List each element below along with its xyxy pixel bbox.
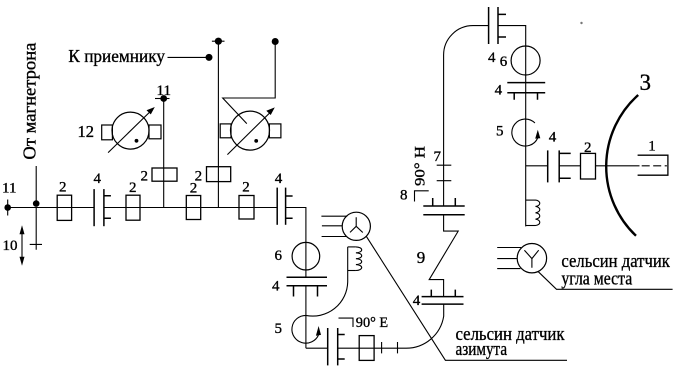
wire vertical below rotator 5 #1	[525, 146, 527, 226]
wire top-left curve of right chain	[444, 26, 489, 206]
rotator 5 #2 arc with arrow	[292, 315, 321, 343]
rotary joint 4 #8	[548, 150, 571, 182]
svg-text:4: 4	[413, 293, 421, 309]
flexible section 9 zigzag	[429, 215, 458, 297]
rotary joint 4 #6 top right	[489, 7, 506, 44]
junction dot магнетрон	[33, 200, 40, 207]
rotary joint 4 #4 on 90E line	[328, 328, 345, 365]
svg-text:4: 4	[495, 83, 503, 99]
corner bracket 90E	[339, 318, 354, 327]
svg-text:азимута: азимута	[456, 339, 508, 360]
ticks 7 on vertical	[437, 165, 452, 181]
arrow 10 double headed	[20, 225, 25, 266]
box 2 on riser 2	[207, 167, 231, 182]
svg-text:К приемнику: К приемнику	[68, 46, 165, 66]
svg-text:2: 2	[141, 169, 149, 185]
svg-text:9: 9	[417, 248, 426, 267]
wire coil1 down curve to rotator 5	[306, 271, 348, 317]
svg-text:11: 11	[2, 181, 16, 197]
svg-text:2: 2	[242, 179, 250, 195]
leader elevation selsyn	[538, 271, 673, 289]
svg-text:4: 4	[272, 279, 280, 295]
svg-text:2: 2	[59, 180, 67, 196]
riser 1 to node 11	[163, 99, 165, 208]
wire К приемнику with dot	[168, 56, 210, 58]
svg-text:4: 4	[488, 50, 496, 66]
wire main horizontal line left part	[8, 207, 94, 209]
wire От магнетрона riser	[35, 166, 37, 203]
wire 90E after box ticks	[382, 342, 398, 353]
coil 1 azimuth selsyn drive	[348, 247, 362, 271]
wire to box 2 right	[559, 165, 580, 167]
riser 2	[217, 41, 219, 207]
svg-text:5: 5	[496, 123, 504, 139]
svg-text:6: 6	[500, 54, 508, 70]
svg-text:3: 3	[640, 70, 652, 95]
elevation selsyn	[497, 244, 546, 273]
box on 90E line	[359, 336, 374, 361]
wire top right to circle	[498, 26, 526, 147]
svg-text:7: 7	[434, 149, 442, 165]
rotating section 6 #1 circle	[292, 242, 320, 270]
wire stub below main line with end tick	[30, 208, 42, 250]
leader azimuth selsyn	[366, 236, 567, 360]
box 2 #3 on main line	[186, 196, 200, 220]
svg-text:4: 4	[549, 130, 557, 146]
coil 2 elevation drive	[526, 200, 540, 225]
rotary joint 4 #9 horizontal	[507, 83, 545, 100]
svg-text:10: 10	[3, 238, 18, 254]
svg-text:90° E: 90° E	[356, 315, 388, 331]
node top of riser 2	[212, 38, 225, 45]
svg-text:2: 2	[195, 168, 203, 184]
rotary joint 4 #2	[277, 188, 292, 225]
rotator 5 #1 arc with arrow	[512, 119, 540, 146]
svg-text:4: 4	[94, 171, 102, 187]
box 2 #4 on main line	[239, 196, 254, 220]
box 2 on riser 1	[152, 168, 177, 181]
node 11 (left end of main waveguide line)	[4, 200, 11, 216]
node 11 top of riser 1	[155, 95, 170, 102]
svg-text:4: 4	[275, 171, 283, 187]
rotary joint 4 #1	[94, 189, 111, 226]
rotary joint 4 #5 horizontal	[422, 290, 464, 305]
riser 3 with Z-link to attenuator	[223, 38, 279, 124]
wire vertical below element 4 down through rotator 5	[305, 286, 307, 348]
svg-text:2: 2	[584, 140, 592, 156]
corner bracket 8	[415, 191, 429, 202]
feed horn 1	[638, 155, 668, 175]
svg-text:11: 11	[157, 83, 171, 99]
rotating section 6 #2 circle	[511, 46, 540, 75]
attenuator 12	[102, 107, 161, 153]
svg-text:8: 8	[400, 188, 408, 204]
reflector 3 arc	[606, 95, 638, 236]
wire box to feed horn	[596, 165, 640, 167]
rotary joint 4 #3 horizontal	[287, 277, 328, 296]
wire horizontal 90E line	[306, 347, 328, 349]
svg-text:90° Н: 90° Н	[413, 146, 429, 186]
svg-text:2: 2	[129, 180, 137, 196]
azimuth selsyn	[321, 212, 370, 240]
svg-text:1: 1	[648, 139, 656, 155]
svg-text:5: 5	[275, 321, 283, 337]
box 2 #2 on main line	[126, 195, 140, 220]
T junction horizontal to joint 4 #8	[526, 165, 548, 167]
wire main horizontal line middle part	[104, 207, 277, 209]
stray dot	[580, 22, 582, 24]
wire main line right part with corner down	[286, 208, 306, 278]
box 2 #1 on main line	[57, 195, 71, 220]
dashed line in horn	[642, 165, 667, 167]
svg-text:От магнетрона: От магнетрона	[19, 43, 39, 160]
attenuator 2 (right, with drive link)	[220, 107, 281, 154]
svg-text:6: 6	[275, 248, 283, 264]
box 2 right	[581, 153, 596, 179]
rotary joint 4 #7 horizontal	[423, 198, 464, 215]
svg-text:12: 12	[78, 122, 95, 141]
svg-text:угла места: угла места	[561, 269, 632, 290]
wire 90E line after joint to curve up	[338, 304, 444, 348]
